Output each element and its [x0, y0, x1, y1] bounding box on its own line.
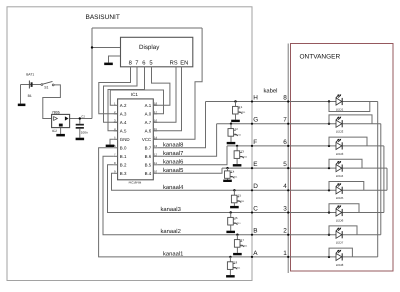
svg-text:B.3: B.3 [120, 171, 127, 176]
svg-text:16: 16 [154, 118, 158, 122]
wire row G [217, 123, 381, 125]
svg-text:4: 4 [283, 183, 287, 190]
svg-text:LED4: LED4 [336, 174, 344, 178]
svg-text:A.3: A.3 [120, 111, 127, 116]
svg-text:B.0: B.0 [120, 145, 127, 150]
cable wire numbers 8..1 [283, 94, 287, 256]
LED LED8 (row A) [328, 248, 353, 267]
wire cable right boundary line [287, 44, 289, 274]
svg-text:kanaal5: kanaal5 [163, 167, 183, 174]
svg-text:C2: C2 [81, 114, 85, 118]
frame ONTVANGER box [291, 44, 394, 272]
ground (capacitor C1) [76, 138, 85, 141]
svg-text:ONTVANGER: ONTVANGER [300, 54, 341, 61]
svg-text:kanaal7: kanaal7 [163, 150, 183, 157]
svg-text:BUZ11: BUZ11 [241, 244, 248, 247]
wire kanaal1 net B.0 to row A [99, 148, 378, 257]
transistor T6 (row C) [226, 211, 241, 233]
svg-text:H: H [253, 94, 258, 101]
cable wire letters H..A [253, 94, 258, 256]
LED LED3 (row F) [328, 137, 367, 156]
svg-text:kabel: kabel [264, 87, 278, 94]
svg-text:BUZ11: BUZ11 [239, 111, 246, 114]
svg-text:T6: T6 [234, 216, 238, 220]
wire VCC rail vertical [91, 28, 93, 119]
wire row E [222, 167, 387, 169]
capacitor C1 [76, 114, 88, 134]
svg-text:T1: T1 [239, 105, 243, 109]
svg-text:LED1: LED1 [336, 107, 344, 111]
svg-text:10: 10 [154, 169, 158, 173]
ground (display) [104, 63, 113, 66]
svg-text:T7: T7 [241, 238, 245, 242]
ground (IC1) [106, 145, 115, 147]
wire kanaal8 net B.7 to riser [157, 102, 205, 148]
svg-text:LED2: LED2 [336, 130, 344, 134]
svg-text:T5: T5 [238, 194, 242, 198]
svg-text:15: 15 [154, 127, 158, 131]
svg-text:B: B [253, 228, 257, 235]
svg-text:BUZ11: BUZ11 [234, 267, 241, 270]
transistor T7 (row B) [233, 234, 248, 256]
svg-text:17: 17 [154, 110, 158, 114]
svg-text:A.5: A.5 [120, 128, 127, 133]
svg-text:D: D [253, 183, 258, 190]
svg-text:kanaal2: kanaal2 [161, 228, 181, 235]
wire display RS to IC1 A.0 [153, 67, 176, 123]
svg-text:Display: Display [139, 44, 160, 51]
svg-text:BUZ11: BUZ11 [231, 176, 238, 179]
wire display pin8 to IC1 A.3 [99, 67, 131, 114]
svg-text:6: 6 [142, 60, 145, 67]
wire W2 from IC1 A.2 over top [110, 90, 163, 114]
svg-text:LED8: LED8 [336, 263, 344, 267]
svg-text:1: 1 [283, 250, 287, 257]
svg-text:A: A [253, 250, 258, 257]
svg-text:7: 7 [135, 61, 138, 67]
svg-text:5: 5 [149, 61, 152, 67]
svg-text:kanaal3: kanaal3 [161, 206, 181, 213]
svg-text:B.4: B.4 [145, 171, 152, 176]
svg-text:11: 11 [154, 161, 157, 165]
svg-text:E: E [253, 161, 257, 168]
wire display pin6 to IC1 A.5 [108, 67, 145, 131]
wire W1 right leg down to IC1 VCC pin [153, 28, 202, 139]
wire row F [227, 145, 384, 147]
IC1 pin numbers left [114, 101, 116, 173]
svg-text:S1: S1 [44, 86, 48, 90]
transistor T5 (row D) [230, 189, 245, 208]
svg-text:LED3: LED3 [336, 152, 344, 156]
svg-text:B.2: B.2 [120, 162, 127, 167]
svg-text:8: 8 [283, 94, 287, 101]
transistor T1 (row H) [231, 100, 246, 122]
svg-text:2: 2 [283, 228, 287, 235]
svg-text:LED6: LED6 [336, 218, 344, 222]
voltage regulator IC2 7805 [52, 110, 70, 133]
IC1 pin numbers right [154, 101, 158, 173]
svg-text:B.5: B.5 [145, 162, 152, 167]
svg-text:kanaal6: kanaal6 [163, 158, 183, 165]
svg-text:100n: 100n [81, 130, 88, 134]
svg-text:LED5: LED5 [336, 196, 344, 200]
frame BASISUNIT box [7, 7, 252, 281]
transistor T8 (row A) [226, 256, 241, 278]
node VCC junction at C1 [79, 117, 81, 119]
wire return bus verticals in ONTVANGER [378, 102, 387, 257]
switch S1 [41, 81, 54, 89]
wire VCC rail to Display [92, 47, 121, 49]
svg-text:A.7: A.7 [145, 120, 152, 125]
LED LED7 (row B) [328, 226, 357, 245]
svg-text:A.0: A.0 [145, 111, 152, 116]
svg-text:kanaal8: kanaal8 [163, 141, 183, 148]
ground (regulator) [56, 134, 65, 137]
svg-text:BASISUNIT: BASISUNIT [86, 14, 120, 21]
wire switch to regulator input [43, 85, 61, 119]
wire row H [206, 101, 378, 103]
wire kanaal2 net B.1 to row B [103, 156, 381, 234]
svg-text:T8: T8 [234, 260, 238, 264]
svg-text:BAT1: BAT1 [26, 72, 34, 76]
svg-text:A.2: A.2 [120, 103, 127, 108]
svg-text:BUZ11: BUZ11 [234, 133, 241, 136]
node VCC junction at Display [91, 46, 93, 48]
wire regulator GND pin [60, 128, 62, 134]
svg-text:EN: EN [180, 61, 188, 67]
wire kanaal6 net B.5 to row F [157, 146, 227, 165]
transistor T3 (row F) [233, 145, 248, 167]
LED LED6 (row C) [328, 204, 359, 223]
svg-text:18: 18 [154, 101, 158, 105]
wire kanaal5 net B.4 to row E [157, 168, 222, 173]
LED LED5 (row D) [328, 182, 364, 201]
svg-text:B.1: B.1 [120, 154, 127, 159]
svg-text:A.4: A.4 [120, 120, 127, 125]
svg-text:8: 8 [129, 60, 132, 67]
node dots on cable right line [287, 100, 289, 258]
svg-text:T4: T4 [231, 169, 235, 173]
svg-text:G: G [253, 117, 258, 124]
svg-text:A.1: A.1 [145, 103, 152, 108]
svg-text:kanaal1: kanaal1 [163, 250, 183, 257]
svg-text:T2: T2 [235, 127, 239, 131]
svg-text:RS: RS [170, 60, 178, 67]
svg-text:GND: GND [120, 137, 130, 142]
svg-text:12: 12 [154, 152, 158, 156]
wire display pin5 to IC1 A.1 [152, 67, 170, 106]
IC1 pin stubs right [153, 105, 157, 173]
ground (battery) [18, 104, 26, 107]
svg-text:B1: B1 [28, 94, 32, 98]
svg-text:IC2: IC2 [52, 129, 57, 133]
net labels kanaal [161, 141, 185, 257]
node dots on cable left line [251, 100, 253, 258]
wire Display GND [109, 56, 121, 63]
svg-text:6: 6 [283, 139, 287, 146]
svg-text:B.6: B.6 [145, 154, 152, 159]
wire IC1 GND pin to ground [110, 139, 114, 144]
svg-text:B.7: B.7 [145, 145, 152, 150]
wire battery plus to switch [21, 84, 42, 86]
IC1 pin stubs left [114, 105, 118, 173]
svg-text:BUZ11: BUZ11 [240, 156, 247, 159]
svg-text:BUZ11: BUZ11 [238, 200, 245, 203]
wire kanaal3 net B.2 to row C [108, 165, 384, 213]
IC U1 IC1 microcontroller [114, 92, 158, 184]
svg-text:7: 7 [283, 117, 287, 124]
transistor T2 (row G) [227, 123, 242, 145]
wire capacitor C1 stem top [79, 119, 81, 124]
wire VCC top run W1 [92, 27, 202, 29]
wire capacitor C1 stem bottom [79, 129, 81, 138]
svg-text:PIC16F84: PIC16F84 [129, 181, 142, 185]
transistor T4 (row E) [223, 167, 238, 182]
wire kanaal4 net B.3 to row D [112, 173, 388, 190]
svg-text:IC1: IC1 [131, 92, 139, 97]
svg-text:BUZ11: BUZ11 [234, 222, 241, 225]
svg-text:VCC: VCC [142, 137, 151, 142]
wire regulator output to VCC rail [70, 118, 92, 120]
LED LED1 (row H) [328, 94, 370, 111]
svg-text:F: F [253, 139, 257, 146]
svg-text:13: 13 [154, 144, 158, 148]
svg-text:C: C [253, 205, 258, 212]
svg-text:14: 14 [154, 135, 158, 139]
svg-text:T3: T3 [241, 149, 245, 153]
wire kanaal7 net B.6 to row G [157, 124, 216, 157]
wire display pin7 to IC1 A.4 [104, 67, 138, 123]
svg-text:A.6: A.6 [145, 128, 152, 133]
LED LED2 (row G) [328, 115, 372, 134]
svg-text:3: 3 [283, 205, 287, 212]
wire battery minus to ground [20, 85, 22, 104]
svg-text:5: 5 [283, 161, 287, 168]
svg-text:7805: 7805 [52, 110, 60, 114]
display module U-DISPLAY [121, 37, 193, 67]
svg-text:LED7: LED7 [336, 241, 344, 245]
wire display EN to IC1 A.7 [153, 67, 181, 131]
battery BAT1 [26, 72, 34, 97]
LED LED4 (row E) [328, 159, 362, 178]
svg-text:kanaal4: kanaal4 [163, 184, 184, 191]
